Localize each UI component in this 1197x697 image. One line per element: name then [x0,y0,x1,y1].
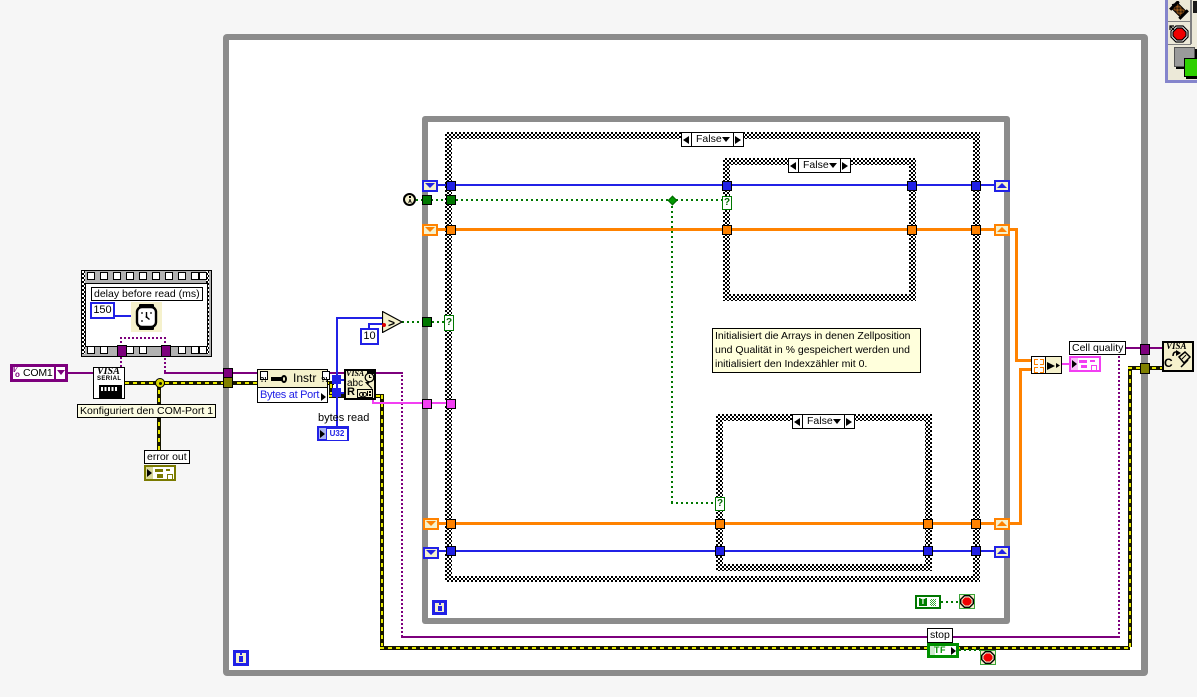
wire: error down left [380,395,384,647]
wire: purple visa COM1 to config [68,372,93,374]
comment box [712,328,921,373]
tunnel orange CS2 right [907,225,917,235]
wire: error property node elbow [328,381,334,385]
wire: error bottom span [380,646,1130,650]
sequence sprocket holes top [87,272,207,280]
tunnel orange CS2 left [722,225,732,235]
tunnel green on W2 border (upper) [422,195,432,205]
tunnel orange CS3 right [923,519,933,529]
wire: orange right ext top [1009,228,1018,231]
palette cell borders [1168,0,1191,22]
wire: green stop inner [941,601,960,603]
iteration terminal i of W1 [233,650,249,666]
tunnel blue CS2 left [722,181,732,191]
stop label [927,628,953,643]
tunnel green on W2 border (selector feed) [422,317,432,327]
wire: orange vertical to build array input1 [1015,228,1018,361]
wire: blue i32 top span [438,184,994,186]
tunnel olive on W1 right border [1140,363,1150,374]
wire: purple visa bottom span [401,636,1120,638]
wait (ms) icon [131,302,162,332]
VISA read icon [344,369,376,400]
case structure CS3 (lower inner) checkered border [716,414,932,571]
numeric constant 10 [360,328,379,345]
junction: error round [155,378,165,388]
wire: purple visa property to read [328,372,344,374]
sequence: delay before read label [91,287,203,301]
VISA configure serial port icon [93,367,125,399]
shift register SR blue up-right top [994,180,1010,192]
tunnel pink on W2 border [422,399,432,409]
wire: green boolean from clock icon to upper case selector [416,199,723,201]
junction: blue square 1 [332,375,341,384]
svg-text:>: > [388,316,395,330]
bytes read label [318,412,369,424]
palette right column sliver [1191,0,1197,44]
tunnel blue CS1 right top [971,181,981,191]
COM1 I/O constant [10,364,68,382]
selector label CS3 "False" [792,414,855,429]
wire: blue from 10 constant [368,323,370,329]
wire: error read out right [376,394,384,398]
numeric constant 150 [90,302,115,319]
error out label [144,450,190,464]
tunnel orange CS1 right bottom [971,519,981,529]
selector terminal CS3 ? [715,497,725,511]
shift register SR blue up-right bottom [994,546,1010,558]
wire: green stop outer [959,649,980,651]
selector label CS2 "False" [788,158,851,173]
wire: orange dbl bottom span [438,522,994,525]
U32 indicator terminal [317,426,349,441]
wire: green boolean from > to CS1 selector [402,321,445,323]
wire: purple visa inside sequence down [164,337,166,347]
tunnel blue CS2 right [907,181,917,191]
sequence sprocket holes bottom [87,346,207,354]
palette spool tool icon [1169,1,1189,20]
junction: green dot [668,196,678,206]
sequence left/right film edges [82,271,85,354]
junction: blue square 2 [332,388,341,397]
wire: blue 150 to wait [114,315,132,317]
case structure CS1 (big) checkered border [445,132,980,582]
boolean constant T (inner) [915,595,941,609]
while loop W2 interior [428,122,1004,618]
wire: pink build array to indicator [1062,363,1070,365]
pink array indicator [1069,356,1101,372]
conditional terminal W1 (stop sign) [980,650,996,665]
palette color tool gray square [1174,47,1195,67]
case structure CS1 interior [452,139,973,576]
while loop W1 (outer) border [223,34,1148,676]
build array node [1031,356,1062,374]
wire: purple visa inside sequence across [120,337,166,339]
selector terminal CS2 ? [722,196,732,210]
wire: orange vertical to build array input2 [1019,368,1022,525]
tunnel pink on CS1 border [446,399,456,409]
tunnel blue CS1 left bottom [446,546,456,556]
wire: error up right [1128,367,1132,647]
wire: purple visa config up to sequence tunnel [120,347,122,367]
tools palette [1165,0,1197,83]
shift register SR blue down-left top [422,180,438,192]
wire: purple visa to close [1118,347,1162,349]
wire: error config to property node [125,381,257,385]
palette breakpoint tool icon [1168,23,1190,45]
shift register SR orange down-left top [422,224,438,236]
wire: blue bytes at port output [336,317,338,427]
wire: error to visa close [1128,366,1162,370]
Cell quality label [1069,341,1126,355]
tunnel orange CS1 left top [446,225,456,235]
tunnel orange CS3 left [715,519,725,529]
tunnel blue CS1 left top [446,181,456,191]
shift register SR orange down-left bottom [423,518,439,530]
label Konfiguriert den COM-Port 1 [77,404,216,418]
wire: blue stub2 [336,392,345,394]
wire: green boolean to lower case selector [671,502,716,504]
clock/metronome icon (circled) [403,193,416,206]
tunnel green on CS1 border (upper) [446,195,456,205]
tunnel blue CS3 left [715,546,725,556]
tunnel blue CS1 right bottom [971,546,981,556]
shift register SR orange up-right top [994,224,1010,236]
tunnel purple sequence 2 [161,345,171,357]
tunnel purple on W1 right border [1140,344,1150,355]
shift register SR blue down-left bottom [423,547,439,559]
wire: green boolean vertical branch [671,200,673,503]
boolean terminal TF (stop) [927,643,959,658]
wire: orange stub to build array input2 [1019,368,1031,371]
shift register SR orange up-right bottom [994,518,1010,530]
tunnel purple sequence 1 [117,345,127,357]
VISA close icon [1162,341,1194,372]
iteration terminal i of W2 [432,600,447,615]
wire: error branch down to error out [157,384,161,450]
case structure CS2 interior [730,165,909,294]
tunnel orange CS1 right top [971,225,981,235]
wire: purple visa down left [401,373,403,637]
wire: orange right ext bottom [1009,522,1021,525]
wire: purple visa to property node [164,372,257,374]
wire: blue stub into read byte count [336,379,345,381]
selector label CS1 "False" [681,132,744,147]
case structure CS2 (upper inner) checkered border [723,158,916,301]
property node Bytes at Port [257,369,328,403]
wire: purple visa up right [1118,348,1120,638]
selector terminal CS1 ? [444,315,454,331]
comparator greater-than [382,311,403,333]
wire: purple visa inside sequence up [120,337,122,347]
wire: purple visa read out right [376,372,403,374]
tunnel orange CS1 left bottom [446,519,456,529]
wire: pink string read elbow [372,395,374,404]
wire: blue to comparator [336,317,383,319]
palette color tool green square [1184,58,1197,77]
tunnel olive on W1 left border [223,377,233,388]
wire: orange dbl top span [438,228,994,231]
wire: orange stub to build array input1 [1015,359,1031,362]
wire: blue i32 bottom span [438,550,994,552]
while loop W2 (inner) border [422,116,1010,624]
tunnel blue CS3 right [923,546,933,556]
while loop W1 interior [229,40,1141,670]
error out cluster indicator [144,465,176,481]
wire: purple visa seq tunnel2 down [164,355,166,372]
conditional terminal W2 (stop sign) [959,594,975,609]
flat sequence S1 frame [81,270,212,357]
case structure CS3 interior [723,421,925,564]
tunnel purple on W1 left border [223,368,233,379]
